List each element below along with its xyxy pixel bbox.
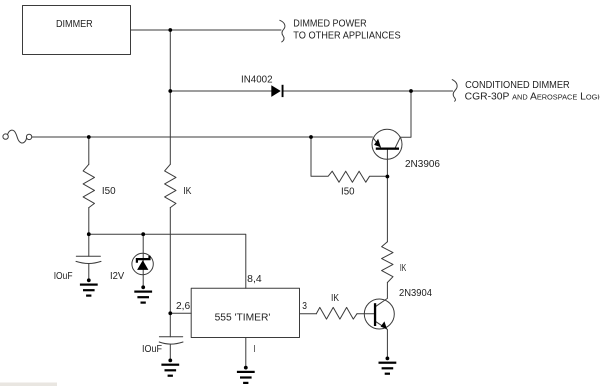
svg-text:CONDITIONED DIMMER: CONDITIONED DIMMER — [465, 80, 570, 91]
svg-text:2N3906: 2N3906 — [405, 159, 441, 170]
node feedback junction — [386, 175, 390, 179]
transistor Q2 base bar — [374, 303, 376, 326]
wire cap2 top — [169, 313, 171, 337]
diode D1 1N4002 — [271, 85, 281, 97]
node 150 branch — [87, 135, 91, 139]
zener diode D2 triangle — [137, 260, 148, 270]
resistor R1 150 — [83, 164, 94, 207]
resistor R3 150 feedback — [311, 137, 388, 182]
ac input connector — [8, 130, 27, 143]
ground cap2 — [161, 364, 179, 377]
wire pin 3 — [300, 313, 317, 315]
node diode branch — [168, 89, 172, 93]
zener diode D2 cathode bar — [137, 256, 150, 263]
wire vertical bus upper — [169, 30, 171, 164]
node pin 2,6 — [168, 311, 172, 315]
ground q2 emitter — [379, 362, 397, 375]
zener diode D2 circle — [132, 253, 153, 274]
wire mid rail — [89, 234, 246, 288]
transistor Q1 base wire — [386, 150, 388, 177]
svg-text:2,6: 2,6 — [176, 301, 191, 312]
wire pin 1 — [245, 338, 247, 368]
wire 150 branch upper — [88, 137, 90, 164]
transistor Q2 emitter arrow — [381, 321, 388, 329]
wire dimmer output — [131, 29, 282, 31]
svg-text:IK: IK — [183, 186, 192, 197]
node zener ground — [141, 285, 145, 289]
transistor Q1 base bar — [376, 148, 399, 150]
capacitor C1 10uF — [76, 256, 101, 263]
wire cap2 bottom — [169, 344, 171, 360]
svg-text:IOuF: IOuF — [142, 344, 162, 355]
dimmer box — [23, 6, 131, 55]
wire R5 to node — [386, 177, 388, 242]
transistor Q2 collector diagonal — [376, 283, 388, 307]
ground zener — [134, 291, 152, 304]
transistor Q1 2N3906 circle — [372, 129, 402, 159]
svg-text:3: 3 — [302, 301, 307, 312]
wire base to Q2 — [357, 313, 374, 315]
connector squiggle dimmed power — [280, 20, 285, 42]
svg-text:CGR-30P and Aerospace Logic: CGR-30P and Aerospace Logic — [465, 91, 600, 102]
transistor Q1 emitter arrow — [374, 139, 381, 147]
wire cap1 top — [88, 234, 90, 256]
transistor Q2 2N3904 circle — [364, 299, 394, 329]
svg-text:IOuF: IOuF — [54, 271, 73, 282]
svg-text:IK: IK — [331, 293, 339, 304]
node q2 emitter ground — [386, 357, 390, 361]
svg-text:DIMMED POWER: DIMMED POWER — [293, 19, 366, 30]
svg-text:I: I — [254, 344, 256, 355]
555 timer U1 box — [191, 288, 299, 337]
transistor Q1 collector diagonal — [395, 91, 411, 147]
svg-text:I50: I50 — [341, 186, 355, 197]
svg-text:I2V: I2V — [110, 271, 125, 282]
node cap2 ground — [168, 359, 172, 363]
svg-text:IK: IK — [400, 263, 407, 274]
svg-text:I50: I50 — [102, 186, 116, 197]
capacitor C2 10uF — [159, 337, 183, 344]
node zener branch — [141, 232, 145, 236]
resistor R4 1K base — [316, 307, 357, 319]
node pin1 ground — [244, 366, 248, 370]
node pnp emitter branch — [309, 135, 313, 139]
svg-text:555 'TIMER': 555 'TIMER' — [215, 313, 271, 324]
node conditioned output — [409, 89, 413, 93]
wire 150 branch lower — [88, 208, 90, 235]
resistor R2 1K — [165, 164, 176, 207]
svg-text:DIMMER: DIMMER — [56, 19, 93, 30]
ground pin1 — [237, 371, 255, 384]
svg-text:IN4002: IN4002 — [241, 75, 273, 86]
wire diode line left — [170, 90, 271, 92]
svg-text:2N3904: 2N3904 — [399, 288, 433, 299]
svg-text:TO OTHER APPLIANCES: TO OTHER APPLIANCES — [293, 31, 401, 42]
svg-text:8,4: 8,4 — [247, 274, 262, 285]
transistor Q1 emitter diagonal — [373, 138, 380, 147]
wire main ac line — [32, 136, 373, 138]
node dimmer output junction — [168, 28, 172, 32]
node cap1 ground — [87, 278, 91, 282]
wire cap1 bottom — [88, 264, 90, 281]
node cap1 branch — [87, 232, 91, 236]
resistor R5 1K vertical — [382, 242, 393, 283]
connector squiggle conditioned dimmer — [452, 80, 457, 102]
wire pin 2,6 — [170, 312, 191, 314]
transistor Q2 emitter diagonal — [376, 322, 388, 359]
wire zener top — [142, 234, 144, 287]
ground cap1 — [80, 284, 98, 297]
wire vertical bus lower — [169, 208, 171, 314]
wire diode line right — [283, 90, 452, 92]
